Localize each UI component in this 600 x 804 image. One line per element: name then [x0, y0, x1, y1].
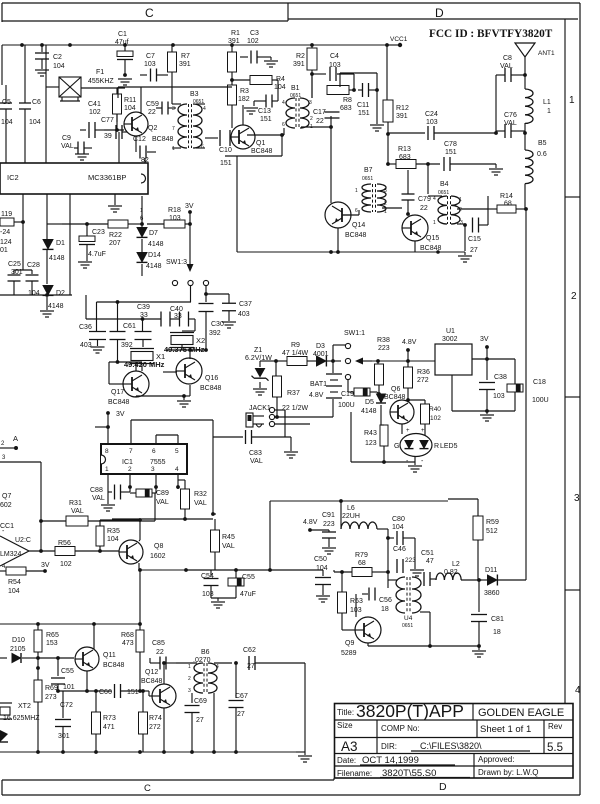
svg-text:Q14: Q14 — [352, 222, 365, 229]
svg-text:R22: R22 — [109, 232, 122, 239]
svg-text:104: 104 — [316, 565, 328, 572]
svg-text:C1: C1 — [118, 31, 127, 38]
svg-text:151: 151 — [445, 149, 457, 156]
svg-text:C67: C67 — [235, 693, 248, 700]
svg-text:C85: C85 — [152, 640, 165, 647]
svg-text:22UH: 22UH — [342, 513, 360, 520]
svg-text:B6: B6 — [201, 649, 210, 656]
wire bat to sw — [341, 360, 346, 362]
capacitor C9 — [61, 135, 92, 155]
capacitor C12 — [136, 136, 156, 164]
wire left col2 to R22 — [47, 223, 62, 225]
wire mid rail — [0, 622, 142, 626]
resistor R7 — [168, 45, 191, 104]
border zone number 3 — [574, 493, 580, 504]
switch SW1:1 arrow — [355, 358, 372, 365]
wire 4.8V rail — [270, 499, 448, 570]
zener Z1 — [245, 347, 272, 388]
svg-text:22 1/2W: 22 1/2W — [282, 405, 308, 412]
svg-text:22: 22 — [156, 649, 164, 656]
wire Q8 rail link — [138, 568, 188, 624]
svg-text:R3: R3 — [240, 88, 249, 95]
capacitor C7 — [140, 53, 168, 82]
svg-text:XT2: XT2 — [18, 703, 31, 710]
wire C5 top — [2, 45, 6, 103]
svg-text:C4: C4 — [330, 53, 339, 60]
wire B4 r pin2 — [457, 196, 488, 209]
capacitor C62 — [232, 647, 305, 670]
svg-text:D3: D3 — [316, 343, 325, 350]
resistor R9 — [276, 342, 312, 366]
border top bar — [2, 3, 578, 21]
title GOLDEN EAGLE — [478, 707, 564, 719]
transistor Q6 — [384, 386, 414, 424]
ground C81 node — [472, 646, 486, 657]
wire C8 left drop — [494, 75, 498, 135]
VCC1 terminal — [387, 36, 408, 47]
svg-text:392: 392 — [209, 330, 221, 337]
wire Q16 base — [163, 371, 177, 373]
svg-text:6: 6 — [282, 122, 285, 128]
svg-text:R4: R4 — [276, 76, 285, 83]
svg-text:L2: L2 — [452, 561, 460, 568]
wire C62 right down — [296, 663, 305, 752]
svg-text:4: 4 — [575, 685, 581, 696]
svg-text:272: 272 — [417, 377, 429, 384]
svg-text:102: 102 — [430, 415, 441, 422]
capacitor C2 — [35, 45, 65, 70]
svg-text:R45: R45 — [222, 534, 235, 541]
wire IC1 pin5 loop — [156, 435, 178, 444]
node A — [0, 434, 18, 450]
resistor R36 — [404, 361, 430, 400]
transistor Q9 — [341, 617, 381, 657]
svg-text:B7: B7 — [364, 167, 373, 174]
svg-text:207: 207 — [109, 240, 121, 247]
svg-text:C37: C37 — [239, 301, 252, 308]
wire Q1 collector — [242, 105, 244, 125]
resistor R13 — [386, 146, 430, 194]
svg-text:104: 104 — [29, 119, 41, 126]
wire box B3 top — [118, 87, 232, 98]
capacitor C24 — [388, 111, 470, 140]
svg-text:R7: R7 — [181, 53, 190, 60]
title text 3820P(T)APP — [356, 701, 464, 721]
svg-text:1: 1 — [547, 108, 551, 115]
wire Q12 base — [140, 691, 152, 696]
svg-text:301: 301 — [58, 733, 70, 740]
ground under C3 — [264, 61, 278, 67]
svg-text:103: 103 — [202, 591, 214, 598]
wire Q6 to LED — [402, 424, 425, 437]
resistor R1 — [228, 30, 241, 80]
svg-text:1: 1 — [433, 220, 436, 226]
wire R68 col — [121, 624, 144, 693]
svg-text:COMP No:: COMP No: — [381, 724, 420, 733]
svg-text:47uf: 47uf — [115, 39, 129, 46]
svg-text:VCC1: VCC1 — [390, 36, 408, 43]
svg-text:471: 471 — [103, 724, 115, 731]
svg-text:C91: C91 — [322, 512, 335, 519]
diode D10 — [0, 637, 38, 663]
svg-text:391: 391 — [293, 61, 305, 68]
rev 5.5 — [547, 742, 563, 754]
wire bottom rail left — [0, 293, 72, 297]
date row — [337, 755, 455, 766]
ground under D2 — [40, 311, 54, 317]
wire Q11 collector — [93, 624, 94, 650]
capacitor C66 — [56, 684, 140, 698]
svg-text:104: 104 — [8, 588, 20, 595]
capacitor C18 — [507, 379, 549, 411]
svg-text:C18: C18 — [533, 379, 546, 386]
svg-text:22: 22 — [148, 109, 156, 116]
svg-text:2: 2 — [459, 207, 462, 213]
wire jack top — [275, 410, 285, 418]
capacitor C4 — [312, 53, 354, 90]
svg-text:C7: C7 — [146, 53, 155, 60]
capacitor C46 — [388, 538, 416, 573]
svg-text:U4: U4 — [404, 615, 413, 622]
svg-text:102: 102 — [89, 109, 101, 116]
wire R14 down long — [525, 209, 527, 580]
svg-text:27: 27 — [470, 247, 478, 254]
inductor L2 — [436, 561, 482, 580]
svg-text:4: 4 — [433, 196, 436, 202]
wire F1 right — [81, 60, 125, 88]
wire 3V to IC1 — [95, 413, 110, 444]
border zone letter C top — [145, 6, 154, 20]
border right strip ticks — [565, 197, 580, 590]
label 101 — [0, 247, 8, 254]
svg-text:4: 4 — [216, 664, 219, 670]
wire D10 left rail — [0, 667, 38, 669]
wire VCC branch C8 — [470, 132, 496, 134]
wire F1 left — [46, 45, 59, 163]
transistor Q14 — [325, 202, 367, 239]
svg-text:BC848: BC848 — [103, 662, 125, 669]
svg-text:Q15: Q15 — [426, 235, 439, 242]
title block row lines — [335, 720, 574, 766]
svg-text:0651: 0651 — [402, 623, 413, 629]
wire Q1 box — [225, 133, 284, 252]
svg-text:103: 103 — [329, 62, 341, 69]
svg-text:22: 22 — [420, 205, 428, 212]
wire Q14 base coil — [342, 210, 359, 215]
title block verticals — [352, 704, 544, 779]
svg-text:5289: 5289 — [341, 650, 357, 657]
ground under C88 pin1 — [101, 492, 115, 511]
svg-text:R14: R14 — [500, 193, 513, 200]
capacitor C77 — [101, 117, 128, 140]
svg-text:C40: C40 — [170, 306, 183, 313]
crystal XT2 — [0, 703, 40, 722]
border zone letter C bottom — [144, 783, 151, 794]
wire C54 rail right — [236, 568, 272, 572]
jack contacts — [269, 407, 274, 426]
capacitor C41 — [80, 101, 104, 138]
capacitor C28 — [26, 262, 40, 297]
svg-text:C25: C25 — [8, 261, 21, 268]
capacitor C30 — [199, 294, 224, 350]
svg-text:Approved:: Approved: — [478, 755, 514, 764]
svg-text:3V: 3V — [480, 336, 489, 343]
capacitor C59 — [146, 101, 176, 116]
svg-text:Title:: Title: — [337, 708, 354, 717]
svg-text:C: C — [145, 6, 154, 20]
svg-text:C69: C69 — [194, 698, 207, 705]
transformer U4 — [388, 577, 430, 629]
capacitor C76 — [496, 112, 525, 138]
svg-text:LM324: LM324 — [0, 551, 22, 558]
svg-text:C66: C66 — [99, 689, 112, 696]
resistor R8 — [312, 86, 356, 113]
svg-text:1: 1 — [355, 188, 358, 194]
resistor R2 — [293, 45, 317, 98]
size A3 — [341, 739, 358, 754]
rev label — [548, 722, 562, 731]
ground under C11 node — [370, 90, 384, 131]
svg-text:G: G — [394, 443, 399, 450]
svg-text:C12: C12 — [133, 136, 146, 143]
svg-text:0.6: 0.6 — [537, 151, 547, 158]
svg-text:1: 1 — [105, 466, 109, 473]
svg-text:SW1:3: SW1:3 — [166, 259, 187, 266]
svg-text:1: 1 — [172, 146, 175, 152]
resistor R69 — [34, 658, 58, 752]
svg-text:47: 47 — [426, 558, 434, 565]
capacitor C5 — [0, 45, 13, 163]
resistor R14 — [488, 193, 528, 213]
svg-text:3: 3 — [384, 188, 387, 194]
svg-text:Size: Size — [337, 721, 353, 730]
resistor R43 — [364, 405, 388, 457]
svg-text:39: 39 — [104, 133, 112, 140]
svg-text:3002: 3002 — [442, 336, 458, 343]
svg-text:C81: C81 — [491, 616, 504, 623]
svg-text:Sheet 1 of 1: Sheet 1 of 1 — [480, 724, 531, 735]
svg-text:2: 2 — [571, 291, 577, 302]
wire L1 bottom node — [523, 123, 527, 150]
svg-text:C23: C23 — [92, 229, 105, 236]
svg-text:D: D — [439, 781, 447, 793]
svg-text:68: 68 — [504, 201, 512, 208]
svg-text:124: 124 — [0, 239, 12, 246]
svg-text:104: 104 — [53, 63, 65, 70]
svg-text:C36: C36 — [79, 324, 92, 331]
svg-text:123: 123 — [365, 440, 377, 447]
wire pin3 left — [0, 455, 41, 551]
diode D14 — [137, 222, 162, 276]
wire D3 to sw — [327, 345, 346, 373]
svg-text:C19: C19 — [341, 391, 354, 398]
capacitor C80 — [386, 516, 415, 545]
svg-text:R12: R12 — [396, 105, 409, 112]
transistor Q2 — [124, 87, 157, 136]
wire Q6 R40 top — [402, 398, 425, 402]
svg-text:R32: R32 — [194, 491, 207, 498]
wire IC2 col3 — [118, 132, 120, 163]
svg-text:4: 4 — [203, 106, 206, 112]
svg-text:BC848: BC848 — [384, 394, 406, 401]
svg-text:VAL: VAL — [194, 500, 207, 507]
label 4.8V — [402, 339, 417, 361]
svg-text:Q9: Q9 — [345, 640, 354, 647]
svg-text:6: 6 — [152, 448, 156, 455]
svg-text:JACK1: JACK1 — [249, 405, 271, 412]
svg-text:3: 3 — [574, 493, 580, 504]
wire VCC rail top — [2, 44, 389, 46]
wire Q11 emitter — [86, 671, 88, 691]
ground under C23 — [78, 262, 92, 268]
svg-text:Q6: Q6 — [391, 386, 400, 393]
wire Q16 collector — [166, 348, 208, 359]
svg-text:2: 2 — [384, 201, 387, 207]
svg-text:BC848: BC848 — [345, 232, 367, 239]
IC U1 3002 — [435, 328, 472, 375]
ground bottom rail — [298, 752, 312, 762]
inductor L6 — [341, 501, 388, 538]
svg-text:68: 68 — [358, 560, 366, 567]
svg-text:C10: C10 — [219, 147, 232, 154]
resistor R59 — [448, 499, 499, 580]
antenna ANT1 — [515, 43, 555, 75]
capacitor C81 — [471, 580, 504, 646]
capacitor C51 — [420, 550, 436, 586]
capacitor C37 — [206, 294, 252, 321]
wire B4 left top — [428, 196, 442, 224]
resistor R38 — [375, 337, 390, 394]
resistor R18 — [147, 207, 192, 228]
diode D1 — [43, 238, 66, 284]
svg-text:1: 1 — [459, 197, 462, 203]
filename row — [337, 768, 470, 779]
svg-text:C41: C41 — [88, 101, 101, 108]
svg-text:R: R — [434, 443, 439, 450]
dir label — [381, 741, 530, 751]
wire C56 left — [355, 594, 357, 617]
wire R1 bottom node — [230, 78, 234, 85]
svg-text:27: 27 — [196, 717, 204, 724]
ground under C91 — [322, 548, 336, 554]
title label — [337, 708, 354, 717]
svg-text:B5: B5 — [538, 140, 547, 147]
resistor R73 — [92, 689, 116, 752]
capacitor C17 — [313, 100, 340, 125]
svg-text:104: 104 — [107, 536, 119, 543]
svg-text:2: 2 — [188, 676, 191, 682]
wire Q15 emitter — [415, 241, 440, 254]
svg-text:C80: C80 — [392, 516, 405, 523]
title block outer — [335, 704, 574, 779]
svg-text:272: 272 — [149, 724, 161, 731]
svg-text:A3: A3 — [341, 739, 358, 754]
svg-text:R9: R9 — [291, 342, 300, 349]
svg-text:A: A — [13, 434, 18, 443]
svg-text:Drawn by: L.W.Q: Drawn by: L.W.Q — [478, 768, 538, 777]
svg-text:FCC ID : BFVTFY3820T: FCC ID : BFVTFY3820T — [429, 28, 553, 40]
svg-text:R40: R40 — [429, 406, 441, 413]
svg-text:151: 151 — [358, 110, 370, 117]
capacitor C55 (47uF) — [211, 568, 256, 598]
svg-text:22: 22 — [316, 118, 324, 125]
wire C25 C28 tops — [14, 266, 32, 270]
ground IF rail — [458, 252, 472, 262]
wire Q14 collector — [330, 127, 332, 203]
inductor B5 — [525, 140, 547, 209]
capacitor C54 — [186, 570, 236, 598]
svg-text:C88: C88 — [90, 487, 103, 494]
transformer B4 — [433, 181, 463, 226]
svg-text:273: 273 — [45, 694, 57, 701]
wire IC2 bottom left col2 — [46, 194, 48, 238]
capacitor C72 — [55, 691, 73, 752]
wire R35 top — [100, 518, 142, 522]
node R2 bottom — [310, 72, 314, 76]
svg-text:GOLDEN EAGLE: GOLDEN EAGLE — [478, 707, 564, 719]
wire Q8 collector — [139, 520, 140, 541]
resistor R31 — [39, 493, 155, 526]
svg-text:C17: C17 — [313, 109, 326, 116]
transformer B7 — [355, 167, 387, 215]
resistor R74 — [139, 689, 162, 752]
svg-text:01: 01 — [0, 247, 8, 254]
svg-text:C89: C89 — [156, 490, 169, 497]
svg-text:D7: D7 — [149, 230, 158, 237]
diode D2 — [43, 250, 66, 310]
IC U3 IC1 7555 — [101, 444, 187, 474]
resistor R79 — [334, 552, 390, 577]
svg-text:R8: R8 — [343, 97, 352, 104]
wire LED cathodes — [409, 452, 424, 465]
svg-text:C79: C79 — [418, 196, 431, 203]
ground under C9 — [75, 154, 89, 160]
svg-text:R18: R18 — [168, 207, 181, 214]
svg-text:3: 3 — [151, 466, 155, 473]
wire SW3 mid contact drop — [190, 286, 192, 303]
svg-text:18: 18 — [381, 606, 389, 613]
resistor 119 (left edge) — [0, 211, 25, 226]
svg-text:C38: C38 — [494, 374, 507, 381]
svg-text:BC848: BC848 — [152, 136, 174, 143]
resistor R11 — [113, 88, 137, 122]
svg-text:8: 8 — [105, 448, 109, 455]
transformer B1 — [282, 85, 313, 130]
svg-text:100U: 100U — [532, 397, 549, 404]
ground under Z1 — [253, 389, 267, 395]
svg-text:Q16: Q16 — [205, 375, 218, 382]
battery BAT1 — [309, 374, 342, 417]
border inner right line — [564, 19, 566, 703]
svg-text:403: 403 — [80, 342, 92, 349]
resistor R3 — [228, 85, 250, 128]
label pin 6 — [140, 208, 144, 222]
svg-text:R69: R69 — [45, 685, 58, 692]
svg-text:VAL: VAL — [92, 495, 105, 502]
svg-text:BC848: BC848 — [251, 148, 273, 155]
svg-text:BC848: BC848 — [200, 385, 222, 392]
resistor R56 — [55, 540, 122, 568]
FCC ID text — [429, 28, 553, 40]
svg-text:C62: C62 — [243, 647, 256, 654]
svg-text:C13: C13 — [258, 108, 271, 115]
wire IF emitter rail — [237, 250, 465, 254]
wire IC1 bottom rail — [112, 512, 216, 524]
svg-text:+: + — [421, 428, 425, 434]
svg-text:3: 3 — [188, 688, 191, 694]
svg-text:1: 1 — [569, 95, 575, 106]
svg-text:R68: R68 — [121, 632, 134, 639]
